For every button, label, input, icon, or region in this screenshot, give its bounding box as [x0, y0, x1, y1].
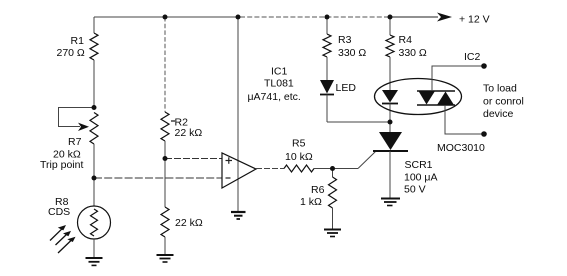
svg-text:R7: R7	[68, 136, 82, 148]
svg-text:R3: R3	[338, 34, 352, 46]
svg-text:R4: R4	[399, 34, 413, 46]
svg-text:To load: To load	[483, 83, 517, 95]
svg-text:100 μA: 100 μA	[404, 172, 438, 184]
svg-text:device: device	[483, 108, 514, 120]
svg-text:IC1: IC1	[271, 66, 288, 78]
svg-text:LED: LED	[336, 82, 357, 94]
svg-text:TL081: TL081	[264, 78, 294, 90]
svg-text:SCR1: SCR1	[405, 159, 433, 171]
svg-text:330 Ω: 330 Ω	[399, 47, 427, 59]
svg-text:330 Ω: 330 Ω	[338, 47, 366, 59]
svg-text:22 kΩ: 22 kΩ	[175, 127, 203, 139]
svg-text:or conrol: or conrol	[483, 96, 524, 108]
svg-text:50 V: 50 V	[404, 184, 426, 196]
svg-text:1 kΩ: 1 kΩ	[300, 196, 322, 208]
svg-text:R1: R1	[71, 35, 85, 47]
svg-text:MOC3010: MOC3010	[437, 142, 485, 154]
svg-text:R5: R5	[292, 138, 306, 150]
svg-text:CDS: CDS	[48, 206, 70, 218]
svg-text:270 Ω: 270 Ω	[57, 47, 85, 59]
svg-text:Trip point: Trip point	[40, 159, 83, 171]
svg-text:10 kΩ: 10 kΩ	[285, 151, 313, 163]
svg-text:R6: R6	[311, 184, 325, 196]
svg-text:22 kΩ: 22 kΩ	[175, 217, 203, 229]
svg-text:+ 12 V: + 12 V	[459, 13, 490, 25]
svg-text:μA741, etc.: μA741, etc.	[248, 91, 301, 103]
svg-text:IC2: IC2	[464, 51, 481, 63]
